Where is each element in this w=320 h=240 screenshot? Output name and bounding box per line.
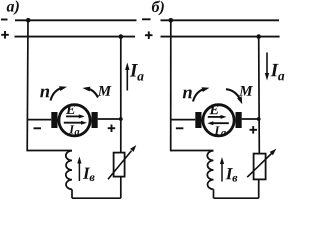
label IB (b) xyxy=(226,168,233,179)
wire: negative supply rail (a) xyxy=(15,19,137,21)
arrow under E (a) xyxy=(66,115,80,117)
wire: bottom return (b) xyxy=(214,197,259,199)
wire: left vertical branch (a) xyxy=(26,20,29,151)
wire: negative supply rail (b) xyxy=(161,19,280,21)
minus terminal label (left rail a) xyxy=(1,19,8,21)
label E (EMF) inside motor (a) xyxy=(66,105,75,114)
node: junction of left branch with negative rail (a) xyxy=(26,18,31,23)
rheostat rectangle (a) xyxy=(114,153,125,177)
label Ia (b) xyxy=(271,64,279,76)
arrow n (rotation, curved) (b) xyxy=(193,89,206,102)
node: junction of right branch with positive rail (b) xyxy=(256,34,261,39)
arrow n (rotation, curved) (a) xyxy=(51,88,64,101)
brush right (a) xyxy=(92,112,98,128)
label n (speed) (a) xyxy=(40,88,49,97)
node: junction right branch / armature wire (b) xyxy=(257,117,261,121)
wire: coil bottom stub (b) xyxy=(213,189,215,198)
arrow Ia (armature current, up) (a) xyxy=(126,69,128,91)
wire: right vertical branch upper segment (b) xyxy=(258,37,261,154)
rheostat adjustment arrow (a) xyxy=(108,151,132,180)
arrow IB (field current, up) (b) xyxy=(221,163,223,182)
wire: right brush to right branch (a) xyxy=(98,118,121,120)
arrow IB (field current, up) (a) xyxy=(78,163,80,182)
node: junction of left branch with negative rail (b) xyxy=(169,18,174,23)
wire: coil bottom stub (a) xyxy=(71,189,73,198)
label IB (a) xyxy=(83,168,90,179)
brush left (b) xyxy=(195,112,201,128)
label M (torque) (a) xyxy=(98,86,112,96)
motor armature circle (b) xyxy=(203,105,234,136)
label Ia inside motor (a) xyxy=(69,125,74,133)
minus terminal label (left rail b) xyxy=(142,18,151,20)
label minus at left brush (b) xyxy=(176,127,184,129)
label Ia (a) xyxy=(130,64,138,76)
wire: right brush to right branch (b) xyxy=(242,118,259,120)
brush left (a) xyxy=(51,112,57,128)
arrow Ia inside motor, reversed (b) xyxy=(212,122,229,124)
node: junction of right branch with positive rail (a) xyxy=(119,34,124,39)
label n (speed) (b) xyxy=(183,89,192,98)
arrow M (torque, curved, opposing) (b) xyxy=(226,89,240,99)
label plus at right brush (b) xyxy=(250,129,258,131)
node: junction right branch / armature wire (a) xyxy=(119,117,123,121)
motor armature circle (a) xyxy=(59,105,90,136)
wire: right branch lower segment (b) xyxy=(258,179,260,198)
arrow Ia (armature current, down) (b) xyxy=(266,53,268,75)
wire: bottom of left branch, step to field winding (b) xyxy=(171,150,214,152)
wire: left vertical branch (b) xyxy=(170,20,172,151)
label E (EMF) inside motor (b) xyxy=(209,105,218,114)
wire: bottom of left branch, step to field winding (a) xyxy=(27,150,72,152)
wire: right branch lower segment (a) xyxy=(120,177,122,199)
wire: positive supply rail (b) xyxy=(161,36,280,38)
rheostat rectangle (b) xyxy=(254,154,266,180)
wire: right vertical branch upper segment (a) xyxy=(120,37,122,153)
label minus at left brush (a) xyxy=(34,127,42,129)
field winding coil LB (b) xyxy=(207,151,213,190)
wire: left rail to left brush (b) xyxy=(171,119,196,121)
arrow Ia inside motor (a) xyxy=(64,122,82,124)
wire: bottom return (a) xyxy=(72,197,121,199)
plus terminal label (left rail a) xyxy=(1,34,9,36)
label Ia inside motor (b) xyxy=(214,126,219,134)
wire: left rail to left brush (a) xyxy=(27,119,51,121)
wire: positive supply rail (a) xyxy=(15,36,136,38)
label b) xyxy=(152,1,164,16)
arrow under E (b) xyxy=(208,116,222,118)
rheostat adjustment arrow (b) xyxy=(247,154,271,178)
label M (torque) (b) xyxy=(239,86,253,96)
brush right (b) xyxy=(236,112,242,128)
label plus at right brush (a) xyxy=(108,127,116,129)
arrow M (torque, curved) (a) xyxy=(86,88,98,97)
field winding coil LB (a) xyxy=(66,151,72,190)
label a) xyxy=(7,0,19,15)
plus terminal label (left rail b) xyxy=(145,34,153,36)
